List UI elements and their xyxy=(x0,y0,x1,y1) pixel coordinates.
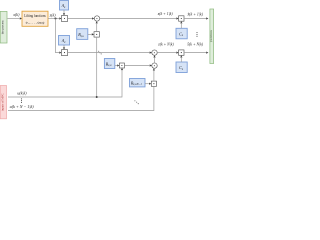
wire u(k|k) xyxy=(8,68,123,97)
wire M3 to predictions xyxy=(184,17,208,19)
svg-text:z(k): z(k) xyxy=(49,12,57,17)
wire C2 to M5 xyxy=(180,55,182,62)
sum S3 xyxy=(152,63,157,68)
svg-text:Lifting functions: Lifting functions xyxy=(24,14,46,18)
multiplier M6 xyxy=(119,63,124,68)
block A2 (Az) xyxy=(59,36,70,46)
sum S2 xyxy=(152,50,157,55)
node z(k) junction xyxy=(55,18,57,20)
svg-text:x̂(k + 1|k): x̂(k + 1|k) xyxy=(186,12,203,17)
wire B1 to mult M2 xyxy=(88,33,94,35)
multiplier M5 xyxy=(179,50,184,55)
wire C1 to M3 xyxy=(180,21,182,28)
wire A2 to M4 xyxy=(63,45,65,50)
wire S1 to mult M3 xyxy=(100,17,179,19)
wire z(k): lifting to mult M1 xyxy=(48,17,62,19)
dots diagonal bottom xyxy=(134,100,139,104)
svg-text:x̂(k + N|k): x̂(k + N|k) xyxy=(186,42,203,47)
svg-text:the process: the process xyxy=(1,20,5,35)
multiplier M1 xyxy=(62,16,68,22)
wire x(k): process to lifting xyxy=(7,17,22,19)
block C2 (Cz) xyxy=(176,62,187,73)
wire M5 to predictions xyxy=(184,51,208,53)
dots diagonal mid xyxy=(98,51,102,55)
inputs box (MPC, red) xyxy=(0,86,6,119)
lifting functions box (orange) xyxy=(22,11,48,26)
block A1 (Az) xyxy=(60,1,69,11)
block B1 (Bz,u) xyxy=(77,29,88,40)
multiplier M4 xyxy=(62,50,68,56)
sum S1 xyxy=(94,16,99,21)
block B2 (Bz,u) xyxy=(104,59,114,69)
dots vertical left xyxy=(21,98,22,103)
svg-text:z(k + 1|k): z(k + 1|k) xyxy=(157,11,173,16)
predictions box (green strip) xyxy=(210,9,214,64)
dots vertical right xyxy=(196,32,197,37)
block C1 (Cz) xyxy=(176,28,187,39)
wire M2 to S1 xyxy=(96,21,98,32)
wire u(k+N-1|k) xyxy=(8,86,154,110)
multiplier M3 xyxy=(179,16,184,21)
wire M4 to sum S2 xyxy=(68,51,152,53)
wire A1 to M1 xyxy=(63,10,65,16)
node u(k) junction xyxy=(96,96,98,98)
wire S3 to S2 xyxy=(153,55,155,63)
svg-text:x(k): x(k) xyxy=(12,12,20,17)
wire M7 to S3 xyxy=(153,68,155,81)
wire u(k) up to M2 xyxy=(96,37,98,97)
wire B3 to mult M7 xyxy=(145,83,151,85)
wire B2 to mult M6 xyxy=(115,64,120,66)
svg-text:u(k + N − 1|k): u(k + N − 1|k) xyxy=(10,104,35,109)
svg-text:inputs of MPC: inputs of MPC xyxy=(0,93,4,111)
svg-text:predictions: predictions xyxy=(210,30,213,42)
svg-text:u(k|k): u(k|k) xyxy=(17,91,27,96)
wire S2 to mult M5 xyxy=(157,51,178,53)
wire z branch down to row 2 xyxy=(56,19,62,54)
wire M1 to sum S1 xyxy=(68,17,95,19)
process box (the process, green) xyxy=(0,11,7,43)
multiplier M7 xyxy=(151,81,156,86)
block B3 (Bz,u N-1) xyxy=(130,79,146,87)
wire M6 to sum S3 xyxy=(124,64,151,66)
multiplier M2 xyxy=(94,32,99,37)
svg-text:z(k + N|k): z(k + N|k) xyxy=(157,42,174,47)
